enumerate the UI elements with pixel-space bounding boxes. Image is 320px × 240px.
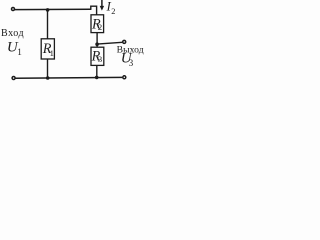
- wire R3 bottom lead: [96, 65, 98, 77]
- svg-text:1: 1: [17, 47, 22, 57]
- wire R2 bottom lead: [96, 33, 98, 48]
- wire R1 top lead: [47, 10, 49, 39]
- node junction bottom of R1: [46, 76, 50, 80]
- wire output lead: [97, 42, 122, 44]
- svg-text:1: 1: [50, 48, 54, 58]
- svg-text:Вход: Вход: [1, 28, 24, 39]
- svg-text:2: 2: [111, 7, 115, 16]
- wire jog to R2: [91, 6, 97, 15]
- wire bottom rail: [15, 76, 122, 79]
- resistor R2: [91, 15, 104, 33]
- svg-text:2: 2: [98, 22, 102, 32]
- wire top rail: [15, 8, 91, 10]
- terminal input bottom: [12, 77, 15, 80]
- node junction bottom of R3: [95, 76, 99, 80]
- terminal input top: [12, 8, 15, 11]
- resistor R1: [41, 39, 54, 59]
- wire R1 bottom lead: [47, 59, 49, 78]
- terminal output bottom: [123, 76, 126, 79]
- svg-text:3: 3: [129, 58, 134, 68]
- node junction output tap: [95, 42, 99, 46]
- resistor R3: [91, 47, 104, 65]
- arrow I2 current: [100, 0, 104, 11]
- terminal output top: [123, 40, 126, 43]
- node junction top of R1: [46, 8, 50, 12]
- svg-text:3: 3: [98, 54, 102, 64]
